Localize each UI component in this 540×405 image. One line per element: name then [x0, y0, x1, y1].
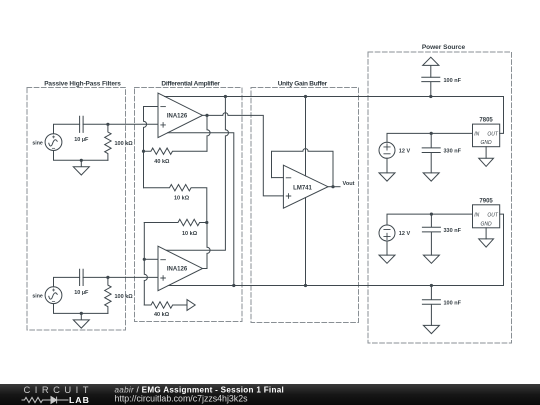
- voltage source V2 sine: [45, 287, 62, 304]
- resistor R2 100k vertical: [105, 277, 111, 313]
- node 330nF top: [430, 132, 433, 135]
- wire rail2: [144, 223, 147, 306]
- node 330nF bottom: [430, 213, 433, 216]
- svg-text:Vout: Vout: [343, 181, 355, 187]
- resistor R4 10k: [144, 185, 207, 223]
- ground under V4: [379, 255, 395, 263]
- ground GND2: [73, 313, 89, 328]
- node U3 V- rail: [304, 284, 307, 287]
- svg-text:IN: IN: [474, 212, 479, 218]
- svg-text:330 nF: 330 nF: [444, 148, 462, 154]
- wire rail1 (-in / RG): [144, 107, 147, 188]
- svg-text:12 V: 12 V: [399, 231, 411, 237]
- svg-text:INA126: INA126: [167, 267, 188, 273]
- svg-text:GND: GND: [481, 222, 493, 228]
- node filter2 out: [106, 276, 109, 279]
- logo resistor squiggle: [22, 397, 46, 402]
- node gnd2: [80, 312, 83, 315]
- capacitor C3 100nF top: [422, 77, 440, 96]
- svg-text:7905: 7905: [479, 198, 493, 204]
- svg-text:7805: 7805: [479, 118, 493, 124]
- wire U2 V- to bottom rail: [168, 214, 503, 285]
- op-amp U1 INA126 top: [158, 93, 203, 138]
- svg-text:12 V: 12 V: [399, 148, 411, 154]
- svg-text:40 kΩ: 40 kΩ: [154, 159, 170, 165]
- node R4-R5-out2: [205, 221, 208, 224]
- op-amp U2 INA126 bottom: [158, 246, 203, 291]
- wire C1 to node: [83, 123, 108, 125]
- svg-text:Differential Amplifier: Differential Amplifier: [161, 81, 220, 88]
- node 100nF bottom rail: [430, 284, 433, 287]
- resistor R3 40k: [144, 148, 208, 154]
- svg-text:sine: sine: [32, 293, 42, 299]
- svg-text:100 nF: 100 nF: [444, 300, 462, 306]
- voltage source V3 12V: [379, 142, 395, 158]
- svg-text:sine: sine: [32, 140, 42, 146]
- wire node to +in INA2 (hop over rail): [108, 276, 158, 278]
- svg-text:OUT: OUT: [487, 212, 499, 218]
- svg-text:330 nF: 330 nF: [444, 228, 462, 234]
- wire U1 out stub: [203, 114, 208, 116]
- wire U1 V- (hops over out-wire and V+ rail): [168, 133, 234, 286]
- svg-text:Passive High-Pass Filters: Passive High-Pass Filters: [44, 81, 121, 88]
- box Differential Amplifier: [135, 88, 243, 322]
- node rail1-40k: [142, 150, 145, 153]
- svg-text:CIRCUIT: CIRCUIT: [24, 384, 94, 395]
- wire U5 GND: [485, 228, 487, 239]
- wire U3 feedback (hop over supply pin): [272, 149, 334, 187]
- wire U4 GND: [485, 147, 487, 159]
- ground up-pointing top: [423, 57, 439, 77]
- wire V1 bottom: [54, 151, 108, 161]
- svg-text:LAB: LAB: [69, 395, 90, 405]
- regulator U5 7905: [473, 205, 500, 228]
- wire U1 out to buffer (hop over V+ rail): [207, 113, 283, 196]
- wire U2 V+ line to V+ rail: [166, 97, 228, 251]
- svg-text:IN: IN: [474, 132, 479, 138]
- box Passive High-Pass Filters: [27, 88, 126, 331]
- svg-text:100 kΩ: 100 kΩ: [115, 294, 134, 300]
- node U1 out: [205, 114, 208, 117]
- wire U2 out stub up to node (hop over V+ line): [203, 223, 211, 269]
- node V- rail bottom: [232, 284, 235, 287]
- capacitor C4 330nF: [422, 133, 440, 173]
- voltage source V4 12V neg: [379, 225, 395, 241]
- ground GND1: [73, 160, 89, 175]
- node U3 V+ rail: [304, 95, 307, 98]
- SECTION BOXES: [27, 52, 512, 343]
- capacitor C2 10uF: [80, 269, 84, 285]
- box Unity Gain Buffer: [251, 88, 359, 323]
- svg-text:10 kΩ: 10 kΩ: [182, 231, 198, 237]
- wire V3 to 7805 IN: [387, 133, 473, 142]
- svg-text:Power Source: Power Source: [422, 44, 466, 51]
- ground under C6: [423, 325, 439, 333]
- logo diode: [46, 397, 69, 404]
- svg-text:GND: GND: [481, 140, 493, 146]
- wire V1 top to C1: [54, 124, 80, 133]
- wire U3 -in: [272, 177, 284, 179]
- wire U3 V+ pin: [305, 97, 307, 176]
- svg-text:100 nF: 100 nF: [444, 78, 462, 84]
- box Power Source: [368, 52, 512, 343]
- svg-text:40 kΩ: 40 kΩ: [154, 312, 170, 318]
- wire U1 -in: [144, 106, 159, 108]
- resistor R6 40k: [144, 302, 187, 308]
- svg-text:Unity Gain Buffer: Unity Gain Buffer: [278, 81, 328, 88]
- svg-text:100 kΩ: 100 kΩ: [115, 141, 134, 147]
- ground under C4: [423, 173, 439, 181]
- wire V3 bottom: [386, 158, 388, 173]
- svg-text:10 kΩ: 10 kΩ: [174, 196, 190, 202]
- node filter1 out: [106, 123, 109, 126]
- node C3 rail: [429, 95, 432, 98]
- wire U2 -in: [144, 258, 158, 260]
- footer bar: [0, 384, 540, 405]
- voltage source V1 sine: [45, 134, 62, 151]
- resistor R5 10k: [144, 219, 207, 225]
- port arrow terminal: [187, 300, 195, 311]
- ground under U4: [479, 158, 494, 166]
- op-amp U3 LM741: [283, 165, 328, 208]
- wire V4 bottom: [386, 241, 388, 255]
- svg-text:10 µF: 10 µF: [74, 290, 89, 296]
- wire node to +in INA1 (hop over rail): [108, 123, 158, 125]
- wire U1 V+ supply / top rail: [165, 97, 504, 134]
- capacitor C5 330nF: [422, 214, 440, 255]
- capacitor C6 100nF: [422, 286, 440, 326]
- svg-text:OUT: OUT: [487, 132, 499, 138]
- ground under U5: [479, 239, 494, 247]
- wire V2 top to C2: [54, 277, 80, 286]
- node V+ rail top: [224, 95, 227, 98]
- svg-text:10 µF: 10 µF: [74, 137, 89, 143]
- SECTION TITLES: [44, 44, 465, 88]
- node gnd1: [80, 159, 83, 162]
- resistor R1 100k vertical: [105, 124, 111, 160]
- svg-text:INA126: INA126: [167, 114, 188, 120]
- wire R3 up to U1 out node: [207, 115, 210, 151]
- wire V2 bottom: [54, 304, 108, 314]
- regulator U4 7805: [473, 124, 500, 147]
- ground under C5: [423, 255, 439, 263]
- svg-text:LM741: LM741: [293, 186, 312, 192]
- wire U3 V- pin: [305, 198, 307, 286]
- svg-text:http://circuitlab.com/c7jzzs4h: http://circuitlab.com/c7jzzs4hj3k2s: [115, 394, 249, 404]
- node U3 out: [331, 185, 334, 188]
- node rail2 -in2: [143, 258, 146, 261]
- wire U3 out stub: [328, 186, 340, 188]
- ground under V3: [379, 173, 395, 181]
- wire C2 to node: [83, 276, 108, 278]
- capacitor C1 10uF: [80, 116, 84, 132]
- wire V4 to 7905 IN: [387, 214, 473, 225]
